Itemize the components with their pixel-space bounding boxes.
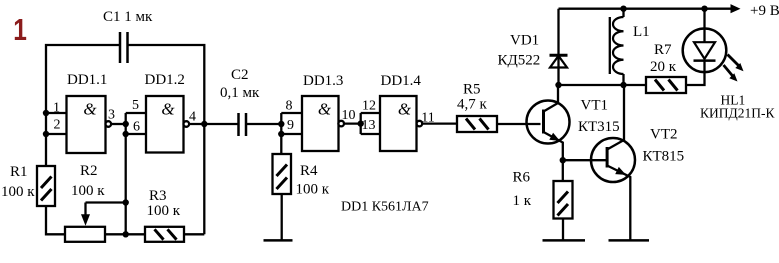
svg-text:VT2: VT2	[650, 127, 678, 143]
svg-text:VD1: VD1	[510, 33, 539, 49]
svg-text:100 к: 100 к	[147, 203, 181, 219]
svg-text:R7: R7	[654, 42, 672, 58]
svg-text:13: 13	[362, 118, 376, 133]
svg-text:C2: C2	[231, 67, 249, 83]
svg-text:&: &	[318, 100, 332, 119]
svg-text:8: 8	[286, 99, 293, 114]
svg-text:3: 3	[108, 108, 115, 123]
svg-text:20 к: 20 к	[650, 59, 677, 75]
svg-text:КИПД21П-К: КИПД21П-К	[700, 106, 775, 121]
svg-text:1 к: 1 к	[513, 193, 532, 209]
svg-text:&: &	[161, 100, 175, 119]
svg-text:DD1.3: DD1.3	[303, 73, 343, 89]
svg-text:100 к: 100 к	[1, 184, 35, 200]
svg-text:4: 4	[189, 110, 196, 125]
svg-text:0,1 мк: 0,1 мк	[220, 85, 260, 101]
svg-text:R3: R3	[149, 188, 167, 204]
svg-text:R1: R1	[10, 164, 28, 180]
svg-text:C1 1 мк: C1 1 мк	[103, 9, 153, 25]
svg-text:1: 1	[53, 101, 60, 116]
svg-text:11: 11	[421, 111, 434, 126]
svg-text:VT1: VT1	[581, 98, 609, 114]
svg-text:&: &	[398, 100, 412, 119]
svg-text:R4: R4	[300, 163, 318, 179]
svg-text:R5: R5	[463, 82, 481, 98]
svg-text:L1: L1	[633, 24, 650, 40]
svg-text:КД522: КД522	[498, 53, 541, 69]
svg-text:2: 2	[54, 118, 61, 133]
svg-text:5: 5	[132, 98, 139, 113]
svg-text:R6: R6	[513, 170, 531, 186]
svg-text:100 к: 100 к	[296, 182, 330, 198]
svg-text:DD1 К561ЛА7: DD1 К561ЛА7	[341, 200, 429, 215]
svg-text:100 к: 100 к	[71, 183, 105, 199]
svg-text:КТ315: КТ315	[578, 119, 620, 135]
svg-text:DD1.4: DD1.4	[381, 73, 422, 89]
svg-text:6: 6	[133, 120, 140, 135]
svg-text:DD1.2: DD1.2	[145, 72, 185, 88]
svg-text:10: 10	[342, 108, 356, 123]
svg-text:4,7 к: 4,7 к	[457, 97, 488, 113]
svg-text:DD1.1: DD1.1	[67, 72, 107, 88]
svg-text:1: 1	[13, 12, 27, 46]
svg-text:R2: R2	[80, 163, 98, 179]
svg-text:КТ815: КТ815	[643, 149, 685, 165]
svg-text:9: 9	[287, 118, 294, 133]
svg-text:12: 12	[362, 99, 376, 114]
svg-text:+9 В: +9 В	[750, 3, 779, 19]
svg-text:&: &	[83, 100, 97, 119]
